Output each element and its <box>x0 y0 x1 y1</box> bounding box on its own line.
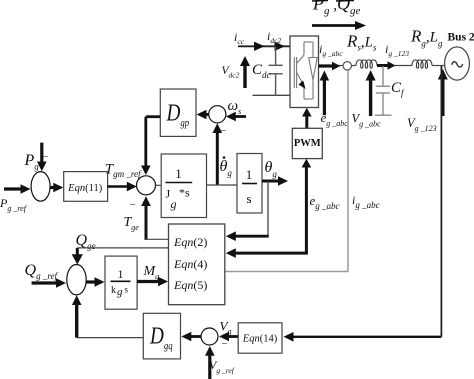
summing junction omega <box>209 106 226 123</box>
node junction circle <box>343 62 351 70</box>
signal arrow omega sum to D_gp <box>197 110 209 120</box>
svg-text:g: g <box>117 286 123 298</box>
voltage arrow V_g_123 <box>438 69 448 116</box>
signal arrow V_g_ref <box>205 346 215 379</box>
block D_gp <box>160 89 196 136</box>
svg-text:–: – <box>129 199 136 210</box>
wire theta_g branch to Eqn245 <box>267 181 269 236</box>
signal arrow P_g_ref <box>4 184 31 194</box>
summing junction V <box>201 328 218 345</box>
wire PWM to converter <box>302 108 312 128</box>
wire i_g_abc measurement <box>225 70 348 272</box>
svg-text:Eqn(14): Eqn(14) <box>242 334 278 345</box>
svg-text:Eqn(4): Eqn(4) <box>173 257 207 271</box>
svg-text:Eqn(11): Eqn(11) <box>67 183 103 194</box>
summing junction torque <box>137 176 156 195</box>
svg-text:g: g <box>171 197 177 211</box>
signal arrow to Eqn11 <box>50 183 63 193</box>
capacitor C_f <box>375 66 392 115</box>
wire node to Rs Ls <box>352 65 357 67</box>
signal arrow Q sum to kg block <box>86 277 104 287</box>
signal arrow Q_g_ref <box>32 278 66 288</box>
wire with current arrow i_g_123 <box>377 65 412 67</box>
voltage arrow e_g_abc <box>320 71 330 116</box>
block 1/(Jg*s) <box>161 154 206 218</box>
node label Pg,Qge title overbars <box>312 0 354 2</box>
svg-text:s: s <box>246 191 251 206</box>
signal arrow T_ge into torque sum <box>141 196 151 240</box>
block Eqn(14) <box>238 323 282 353</box>
wire DC bottom rail <box>253 94 291 96</box>
wire power flow arrow <box>312 21 366 30</box>
wire e_g_abc into PWM and Eqn245 <box>226 159 311 258</box>
wire D_gp output to torque sum <box>141 117 160 175</box>
wire Q_ge from Eqn245 <box>77 247 168 249</box>
svg-text:Eqn(2): Eqn(2) <box>173 235 207 249</box>
signal arrow Eqn14 to V sum <box>219 332 238 342</box>
svg-text:Bus 2: Bus 2 <box>448 32 474 44</box>
block Eqn(2)(4)(5) <box>169 224 225 305</box>
block 1/(kg s) <box>105 256 137 309</box>
block 1/s <box>237 154 262 214</box>
svg-text:1: 1 <box>118 267 124 281</box>
signal arrow omega_s input <box>226 112 246 122</box>
signal arrow Q_ge into Q sum <box>72 248 83 265</box>
wire Jg output <box>207 184 238 186</box>
summing junction P <box>31 172 50 202</box>
svg-text:PWM: PWM <box>294 138 321 149</box>
signal arrow V sum to D_gq <box>181 332 201 342</box>
converter U1 box <box>290 36 319 108</box>
svg-text:Eqn(5): Eqn(5) <box>173 278 207 292</box>
svg-text:*s: *s <box>179 186 190 200</box>
svg-text:Rs,Ls: Rs,Ls <box>346 32 377 53</box>
voltage arrow V_g_abc <box>366 70 376 116</box>
converter U1 IGBT and diode <box>294 42 317 99</box>
capacitor C_dc <box>269 46 283 95</box>
summing junction Q <box>67 265 86 295</box>
wire coil to bus <box>432 65 445 67</box>
signal arrow theta_g output <box>262 176 288 186</box>
source Bus 2 <box>445 47 470 80</box>
voltage arrow V_dc2 <box>240 56 250 88</box>
wire torque sum to Jg block <box>156 184 162 186</box>
inductor Rs Ls coil <box>356 60 377 68</box>
svg-text:s: s <box>125 285 129 295</box>
svg-text:k: k <box>111 285 116 296</box>
wire converter output <box>319 65 344 67</box>
wire D_gq to Q sum <box>77 337 144 339</box>
wire T_ge from Eqn245 <box>145 238 169 240</box>
block Eqn(11) <box>64 172 108 202</box>
signal arrow M_g <box>137 277 168 287</box>
block D_gq <box>143 313 180 359</box>
block PWM <box>292 128 322 158</box>
svg-text:1: 1 <box>246 167 253 182</box>
wire DC top rail <box>238 45 290 47</box>
wire feedback Vg to Eqn14 <box>440 66 442 337</box>
current arrow i_g_abc <box>319 62 341 71</box>
inductor Rg Lg coil <box>412 60 432 68</box>
svg-text:1: 1 <box>175 166 182 181</box>
signal arrow T_gm_ref <box>108 182 137 192</box>
